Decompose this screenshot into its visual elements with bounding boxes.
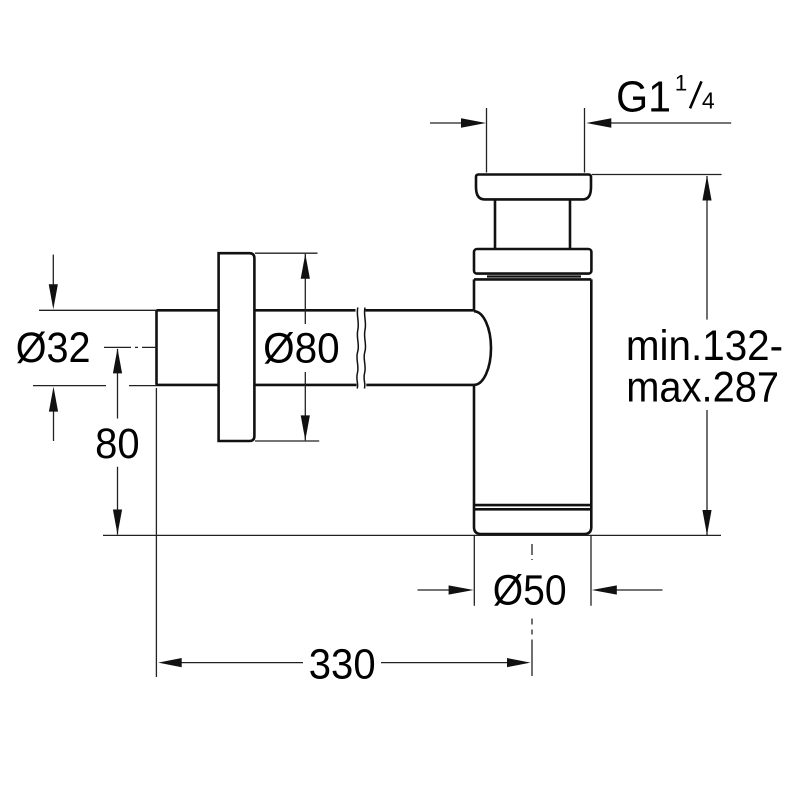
min/max dimension line <box>706 176 708 535</box>
svg-text:G1: G1 <box>616 72 671 122</box>
pipe centerline dash-dot <box>104 346 157 348</box>
top flange (G1 1/4 nut) <box>476 175 591 200</box>
80 arrow top <box>113 348 122 373</box>
svg-text:max.287: max.287 <box>626 362 779 411</box>
svg-text:80: 80 <box>95 419 139 468</box>
stem between flange and collar <box>495 200 570 249</box>
pipe break squiggle right <box>364 308 366 389</box>
G1 1/4 extension lines <box>487 108 585 173</box>
pipe break squiggle left <box>357 308 359 389</box>
330 arrow right <box>507 658 531 667</box>
svg-text:1: 1 <box>675 70 688 95</box>
wall flange disc <box>219 253 255 441</box>
svg-text:Ø80: Ø80 <box>263 323 340 371</box>
dia50 arrow left <box>449 585 474 594</box>
min/max arrow bottom <box>702 510 711 535</box>
G1 1/4 dimension line left <box>430 122 464 124</box>
dia80 arrow top <box>301 254 310 279</box>
G1 1/4 arrow right <box>586 118 611 127</box>
min/max arrow top <box>702 176 711 201</box>
min/max top extension line <box>592 174 722 176</box>
dia80 arrow bottom <box>301 415 310 440</box>
svg-text:330: 330 <box>309 639 376 688</box>
dia80 dimension line <box>304 254 306 441</box>
body cylinder <box>474 279 591 534</box>
svg-text:Ø32: Ø32 <box>16 324 91 372</box>
separator line under collar <box>487 275 581 277</box>
body centerline dash-dot lower <box>531 619 533 677</box>
dia50 dimension line right <box>616 589 663 591</box>
dia50 arrow right <box>592 585 617 594</box>
330 dimension line <box>180 662 509 664</box>
dia50 dimension line left <box>418 589 451 591</box>
inlet pipe bulge inside body <box>474 311 491 385</box>
body centerline dash-dot upper <box>531 544 533 560</box>
G1 1/4 arrow left <box>461 118 486 127</box>
dia80 extension lines <box>255 253 319 441</box>
80 arrow bottom <box>113 510 122 535</box>
svg-text:Ø50: Ø50 <box>493 566 567 614</box>
330 left extension line <box>155 388 157 677</box>
80 dimension line <box>117 349 119 535</box>
dia32 extension lines <box>33 310 157 385</box>
dia32 arrow top <box>52 255 54 286</box>
horizontal pipe <box>157 310 475 385</box>
dia32 arrow bottom <box>53 410 55 441</box>
body bottom joint lines <box>474 505 591 509</box>
G1 1/4 dimension line right <box>609 122 731 124</box>
collar nut <box>474 249 591 274</box>
svg-text:4: 4 <box>702 87 715 113</box>
dia50 extension lines <box>474 535 591 605</box>
bottom reference line <box>103 534 721 536</box>
330 arrow left <box>158 658 182 667</box>
label G1 fraction slash <box>690 81 702 108</box>
